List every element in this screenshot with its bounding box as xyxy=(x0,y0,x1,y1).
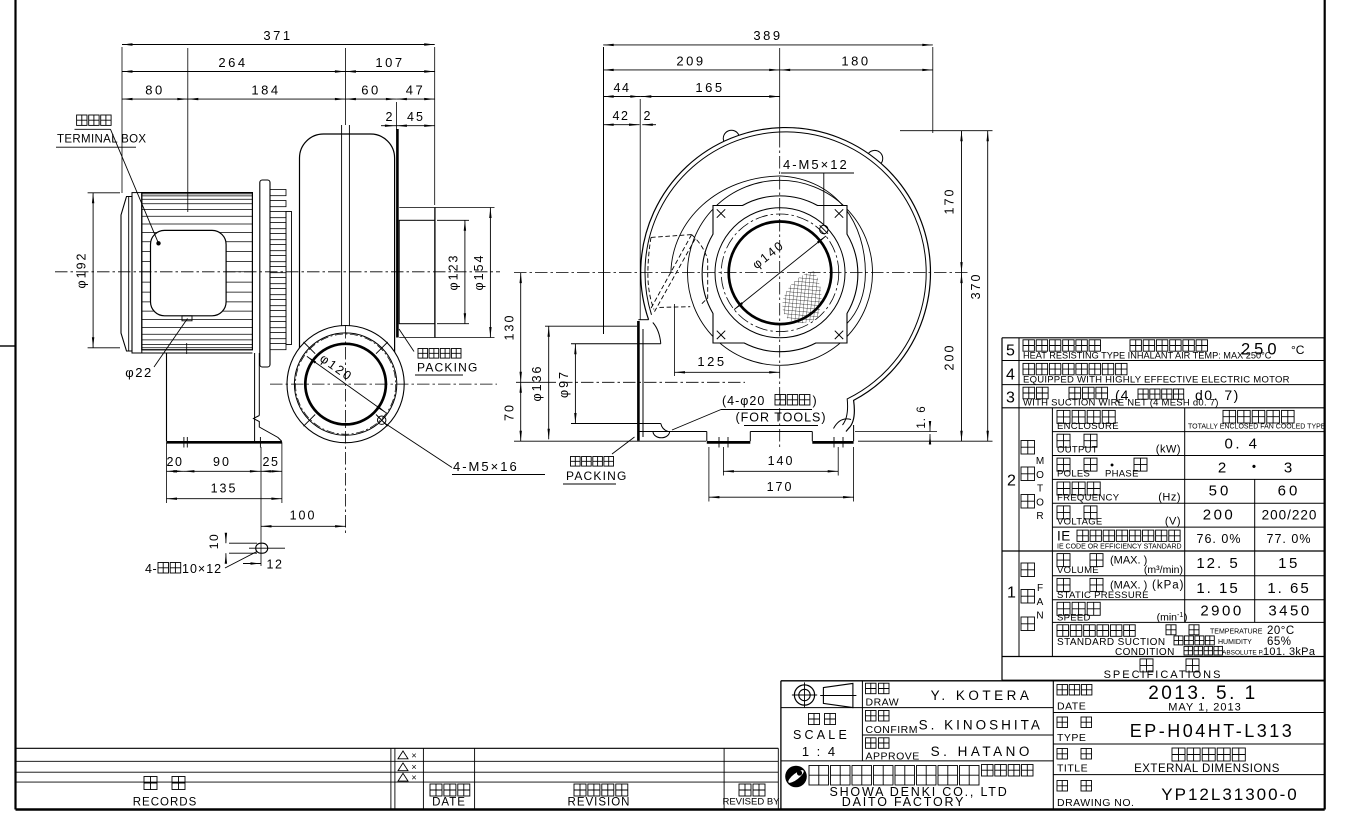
svg-text:): ) xyxy=(813,394,817,408)
svg-text:130: 130 xyxy=(503,314,517,341)
svg-text:170: 170 xyxy=(943,188,957,215)
svg-text:SCALE: SCALE xyxy=(793,728,850,742)
front view: discharge flange face xyxy=(642,329,644,437)
spec row speed xyxy=(1057,602,1070,615)
dim 264 / 107 xyxy=(122,71,345,73)
svg-text:PACKING: PACKING xyxy=(566,469,628,483)
side base dims 20 90 25 xyxy=(166,442,168,503)
svg-text:φ97: φ97 xyxy=(557,370,571,398)
svg-text:3450: 3450 xyxy=(1268,603,1311,620)
side view: motor end cap xyxy=(121,197,132,352)
svg-text:VOLUME: VOLUME xyxy=(1057,565,1099,576)
svg-text:25: 25 xyxy=(263,455,280,469)
svg-text:76. 0%: 76. 0% xyxy=(1197,532,1242,546)
svg-text:F: F xyxy=(1037,583,1043,594)
svg-text:×: × xyxy=(411,773,416,783)
svg-text:60: 60 xyxy=(361,83,380,98)
svg-text:FREQUENCY: FREQUENCY xyxy=(1057,492,1120,503)
svg-text:-1: -1 xyxy=(1177,612,1183,619)
svg-text:100: 100 xyxy=(290,509,317,523)
svg-text:5: 5 xyxy=(1006,343,1015,360)
bolt symbol 4-M5x12 xyxy=(820,225,828,233)
side view: casing back teeth xyxy=(270,190,286,196)
side view: motor cooling fins xyxy=(142,193,253,195)
svg-text:APPROVE: APPROVE xyxy=(866,750,920,762)
dim phi123 (side) xyxy=(464,220,466,323)
dim 371 xyxy=(122,44,435,46)
side view: casing seam lines xyxy=(341,125,343,332)
svg-text:O: O xyxy=(1036,497,1044,508)
svg-text:DATE: DATE xyxy=(432,797,466,809)
svg-text:(Hz): (Hz) xyxy=(1158,491,1181,503)
dim phi154 (side) xyxy=(489,208,491,338)
records revision marks xyxy=(398,751,408,759)
draw/confirm/approve cells xyxy=(866,683,877,694)
dim 135 xyxy=(167,498,282,500)
side view: discharge flange circles xyxy=(287,326,404,443)
svg-text:4-: 4- xyxy=(145,562,157,576)
svg-text:EP-H04HT-L313: EP-H04HT-L313 xyxy=(1130,721,1295,741)
dim 1.6 xyxy=(855,431,937,433)
svg-text:×: × xyxy=(411,762,416,772)
svg-text:2: 2 xyxy=(1007,473,1016,490)
front view: ground extension line xyxy=(514,440,706,442)
svg-text:4: 4 xyxy=(1006,367,1015,384)
spec row enclosure xyxy=(1057,410,1070,423)
label 4-M5x16 xyxy=(385,423,453,468)
svg-text:1. 15: 1. 15 xyxy=(1196,580,1239,597)
dim 209 / 180 xyxy=(603,69,780,71)
front view: bellmouth ring xyxy=(688,180,873,365)
svg-text:165: 165 xyxy=(695,80,724,95)
front view: plate corner bolt X marks xyxy=(717,209,725,217)
svg-text:CONDITION: CONDITION xyxy=(1115,647,1175,658)
svg-text:φ192: φ192 xyxy=(75,252,89,289)
front view: bottom tool bump (left) xyxy=(653,432,670,438)
svg-text:20: 20 xyxy=(167,455,184,469)
front view: discharge packing (thick) xyxy=(637,321,640,441)
title block grid xyxy=(781,680,1324,682)
spec row poles/phase xyxy=(1057,458,1070,471)
svg-text:HUMIDITY: HUMIDITY xyxy=(1218,639,1252,646)
front view: phi136 extension xyxy=(545,325,637,327)
bolt symbol 4-M5x16 xyxy=(378,416,386,424)
spec table grid xyxy=(1002,337,1324,339)
svg-text:O: O xyxy=(1036,470,1044,481)
svg-text:VOLTAGE: VOLTAGE xyxy=(1057,516,1103,527)
front view: tool bump (right, on curve) xyxy=(834,419,852,429)
front view: suction flange OD ring phi154 xyxy=(715,208,845,338)
side view: cable gland nub xyxy=(182,316,192,321)
front view: ledge to discharge xyxy=(638,319,648,321)
svg-text:POLES: POLES xyxy=(1057,469,1090,480)
svg-text:80: 80 xyxy=(145,83,164,98)
svg-text:1. 6: 1. 6 xyxy=(916,405,928,428)
front left dims phi136 phi97 130 70 xyxy=(548,326,550,439)
front view: right foot xyxy=(811,432,813,442)
svg-text:φ22: φ22 xyxy=(125,365,152,380)
svg-text:ABSOLUTE P.: ABSOLUTE P. xyxy=(1222,649,1264,656)
side top extension lines xyxy=(121,47,123,193)
svg-text:TITLE: TITLE xyxy=(1057,763,1088,775)
svg-text:REVISED BY: REVISED BY xyxy=(722,797,780,808)
dim 100 xyxy=(260,447,262,566)
svg-text:125: 125 xyxy=(697,354,726,369)
svg-text:(kPa): (kPa) xyxy=(1152,579,1184,591)
svg-text:WITH SUCTION WIRE NET (4 MESH: WITH SUCTION WIRE NET (4 MESH d0. 7) xyxy=(1023,398,1219,409)
svg-text:REVISION: REVISION xyxy=(568,797,631,809)
svg-text:77. 0%: 77. 0% xyxy=(1267,532,1312,546)
svg-text:3: 3 xyxy=(1006,390,1015,407)
dim 389 xyxy=(603,44,933,46)
svg-text:3: 3 xyxy=(1284,460,1292,477)
svg-text:EQUIPPED WITH HIGHLY EFFECTIVE: EQUIPPED WITH HIGHLY EFFECTIVE ELECTRIC … xyxy=(1023,374,1290,385)
dim phi140 diagonal xyxy=(734,236,826,310)
side view: centerlines xyxy=(55,271,500,273)
svg-text:0. 4: 0. 4 xyxy=(1224,436,1259,453)
svg-text:90: 90 xyxy=(213,455,231,469)
spec specifications row xyxy=(1140,659,1153,672)
side view: bolt diagonal ticks xyxy=(376,415,388,427)
svg-text:2900: 2900 xyxy=(1200,603,1243,620)
svg-text:(m³/min): (m³/min) xyxy=(1144,564,1183,576)
drawing no cell xyxy=(1057,781,1068,792)
svg-text:107: 107 xyxy=(375,55,404,70)
svg-text:209: 209 xyxy=(676,54,705,69)
front view: left foot xyxy=(706,432,708,442)
svg-text:STATIC PRESSURE: STATIC PRESSURE xyxy=(1057,590,1149,601)
dim 42 / 2 (front) xyxy=(603,124,639,126)
svg-text:ENCLOSURE: ENCLOSURE xyxy=(1057,421,1119,432)
spec row volume xyxy=(1057,554,1070,567)
front right dims 170 200 370 1.6 xyxy=(900,130,993,132)
svg-text:4-M5×12: 4-M5×12 xyxy=(783,157,849,172)
svg-text:DRAW: DRAW xyxy=(866,697,900,709)
svg-text:180: 180 xyxy=(841,54,870,69)
spec row output xyxy=(1057,434,1070,447)
svg-text:15: 15 xyxy=(1278,555,1300,572)
svg-text:184: 184 xyxy=(251,83,280,98)
svg-text:12: 12 xyxy=(267,558,284,572)
svg-text:170: 170 xyxy=(767,480,794,494)
svg-text:RECORDS: RECORDS xyxy=(133,797,198,809)
side view: motor fin body xyxy=(142,193,253,350)
svg-text:10: 10 xyxy=(207,533,221,549)
company name xyxy=(809,766,829,786)
svg-text:371: 371 xyxy=(263,28,292,43)
spec row frequency xyxy=(1057,482,1070,495)
front view: suction bore phi123 (bold) xyxy=(729,221,832,324)
svg-text:60: 60 xyxy=(1278,482,1301,499)
svg-text:TOTALLY ENCLOSED FAN COOLED TY: TOTALLY ENCLOSED FAN COOLED TYPE xyxy=(1188,423,1326,430)
svg-text:HEAT RESISTING TYPE INHALANT A: HEAT RESISTING TYPE INHALANT AIR TEMP: M… xyxy=(1023,351,1272,361)
spec row standard suction xyxy=(1057,625,1069,637)
svg-text:TYPE: TYPE xyxy=(1057,732,1086,744)
front view: scroll casing inner wall xyxy=(645,132,926,425)
svg-text:DRAWING NO.: DRAWING NO. xyxy=(1057,797,1134,809)
front bottom dims 140 / 170 xyxy=(722,447,724,476)
side view: phi154 extension lines xyxy=(399,207,494,209)
svg-text:45: 45 xyxy=(407,110,425,124)
spec row static pressure xyxy=(1057,578,1070,591)
front view: centerlines xyxy=(514,272,968,274)
side view: motor joint ring xyxy=(132,193,142,353)
svg-text:50: 50 xyxy=(1209,482,1232,499)
svg-text:DAITO FACTORY: DAITO FACTORY xyxy=(842,795,965,809)
spec row voltage xyxy=(1057,506,1070,519)
title cell xyxy=(1057,749,1068,760)
label packing (front) xyxy=(571,457,581,467)
svg-text:1 : 4: 1 : 4 xyxy=(802,744,837,759)
front view: casing bottom edge xyxy=(638,431,707,433)
svg-text:47: 47 xyxy=(406,83,425,98)
svg-text:200: 200 xyxy=(943,344,957,371)
side view: phi123 extension lines xyxy=(437,219,469,221)
svg-text:IE: IE xyxy=(1057,529,1071,544)
dim 12 (slot) xyxy=(243,563,261,565)
svg-text:DATE: DATE xyxy=(1057,701,1086,713)
svg-text:1. 65: 1. 65 xyxy=(1267,580,1310,597)
dim 125 xyxy=(674,304,676,376)
svg-text:(min: (min xyxy=(1157,612,1178,624)
svg-text:2: 2 xyxy=(644,109,651,123)
svg-text:PHASE: PHASE xyxy=(1105,469,1139,480)
svg-text:(V): (V) xyxy=(1165,515,1181,527)
svg-text:2: 2 xyxy=(386,110,393,124)
svg-text:MAY 1, 2013: MAY 1, 2013 xyxy=(1168,702,1242,714)
front view: discharge pipe phi97 xyxy=(571,343,661,345)
svg-text:SPEED: SPEED xyxy=(1057,613,1091,624)
svg-text:S. HATANO: S. HATANO xyxy=(931,744,1033,759)
side view: suction counter-flange pipe xyxy=(399,220,435,323)
svg-text:OUTPUT: OUTPUT xyxy=(1057,445,1098,456)
front view: hidden outlet passage (dashed) xyxy=(651,235,692,238)
svg-text:(FOR TOOLS): (FOR TOOLS) xyxy=(735,411,826,425)
front top extension lines xyxy=(639,99,641,320)
svg-text:135: 135 xyxy=(211,482,238,496)
svg-text:φ136: φ136 xyxy=(530,365,544,402)
svg-text:S. KINOSHITA: S. KINOSHITA xyxy=(919,718,1043,733)
side view: motor bracket xyxy=(132,352,252,354)
svg-text:140: 140 xyxy=(768,454,795,468)
svg-text:2: 2 xyxy=(1218,460,1226,477)
svg-text:44: 44 xyxy=(614,81,631,95)
slot detail 4-slot 10x12 xyxy=(256,543,268,553)
svg-text:389: 389 xyxy=(753,28,782,43)
drawing sheet frame xyxy=(14,0,16,810)
svg-text:YP12L31300-0: YP12L31300-0 xyxy=(1161,785,1298,804)
projection symbol xyxy=(794,685,814,705)
svg-text:TERMINAL BOX: TERMINAL BOX xyxy=(57,134,146,146)
side view: suction flange face xyxy=(434,208,436,338)
side view: suction packing (thick) xyxy=(396,129,399,338)
records table grid xyxy=(16,747,779,749)
label packing (side) xyxy=(418,349,428,359)
date cell xyxy=(1057,685,1068,696)
dim phi120 diagonal xyxy=(307,356,386,412)
scale cell xyxy=(809,714,820,725)
svg-text:200: 200 xyxy=(1203,506,1236,523)
svg-text:PACKING: PACKING xyxy=(417,361,479,375)
svg-text:370: 370 xyxy=(969,273,983,300)
svg-text:101. 3kPa: 101. 3kPa xyxy=(1263,646,1316,658)
svg-text:4-M5×16: 4-M5×16 xyxy=(453,459,519,474)
svg-text:CONFIRM: CONFIRM xyxy=(866,724,919,736)
svg-text:N: N xyxy=(1036,611,1043,622)
side view: scroll casing (side profile) xyxy=(300,134,395,410)
svg-text:(MAX. ): (MAX. ) xyxy=(1110,555,1147,567)
side view: discharge bore (bold) xyxy=(305,344,386,425)
front view: suction counter flange edge xyxy=(603,47,605,334)
front view: casing lifting tabs xyxy=(723,130,739,141)
company logo mark xyxy=(785,766,807,788)
type cell xyxy=(1057,717,1068,728)
side view: base plate (thick) xyxy=(167,441,282,444)
svg-text:×: × xyxy=(411,750,416,760)
svg-text:42: 42 xyxy=(613,109,630,123)
side view: terminal box xyxy=(151,230,227,315)
svg-text:°C: °C xyxy=(1291,343,1305,357)
svg-text:): ) xyxy=(1184,612,1188,624)
dim 2 / 45 xyxy=(381,125,396,127)
front view: inlet mounting plate xyxy=(702,196,858,352)
dim 10 (slot) xyxy=(229,542,257,544)
records header labels xyxy=(144,777,157,790)
side view: casing back plate xyxy=(286,212,292,345)
svg-text:•: • xyxy=(1252,460,1256,474)
svg-text:M: M xyxy=(1036,456,1044,467)
svg-text:IE CODE OR EFFICIENCY STANDARD: IE CODE OR EFFICIENCY STANDARD xyxy=(1057,544,1182,551)
svg-text:70: 70 xyxy=(503,403,517,421)
svg-text:Y. KOTERA: Y. KOTERA xyxy=(931,688,1033,703)
svg-text:(kW): (kW) xyxy=(1156,444,1181,456)
front view: scroll casing outer wall xyxy=(641,128,931,432)
side view: base tick marks xyxy=(183,437,185,448)
svg-text:264: 264 xyxy=(218,55,247,70)
svg-text:R: R xyxy=(1036,511,1043,522)
svg-text:(4-φ20: (4-φ20 xyxy=(722,394,765,408)
dim 44 / 165 xyxy=(603,96,641,98)
svg-text:T: T xyxy=(1037,484,1043,495)
svg-text:EXTERNAL DIMENSIONS: EXTERNAL DIMENSIONS xyxy=(1134,763,1280,775)
svg-text:A: A xyxy=(1037,597,1044,608)
svg-text:TEMPERATURE: TEMPERATURE xyxy=(1210,628,1263,635)
front view: volute spiral wall xyxy=(671,176,866,344)
svg-text:10×12: 10×12 xyxy=(182,562,222,576)
dim phi192 xyxy=(88,192,120,194)
side view: motor mounting flange xyxy=(260,180,270,367)
svg-text:SPECIFICATIONS: SPECIFICATIONS xyxy=(1104,669,1223,681)
svg-text:200/220: 200/220 xyxy=(1262,507,1318,522)
svg-text:1: 1 xyxy=(1007,585,1016,602)
svg-text:12. 5: 12. 5 xyxy=(1196,555,1239,572)
front view: suction PCD phi140 (dash-dot) xyxy=(721,214,839,332)
frame centering tick xyxy=(0,345,16,347)
label terminal box xyxy=(77,115,87,125)
dim 80 184 60 47 xyxy=(122,98,188,100)
